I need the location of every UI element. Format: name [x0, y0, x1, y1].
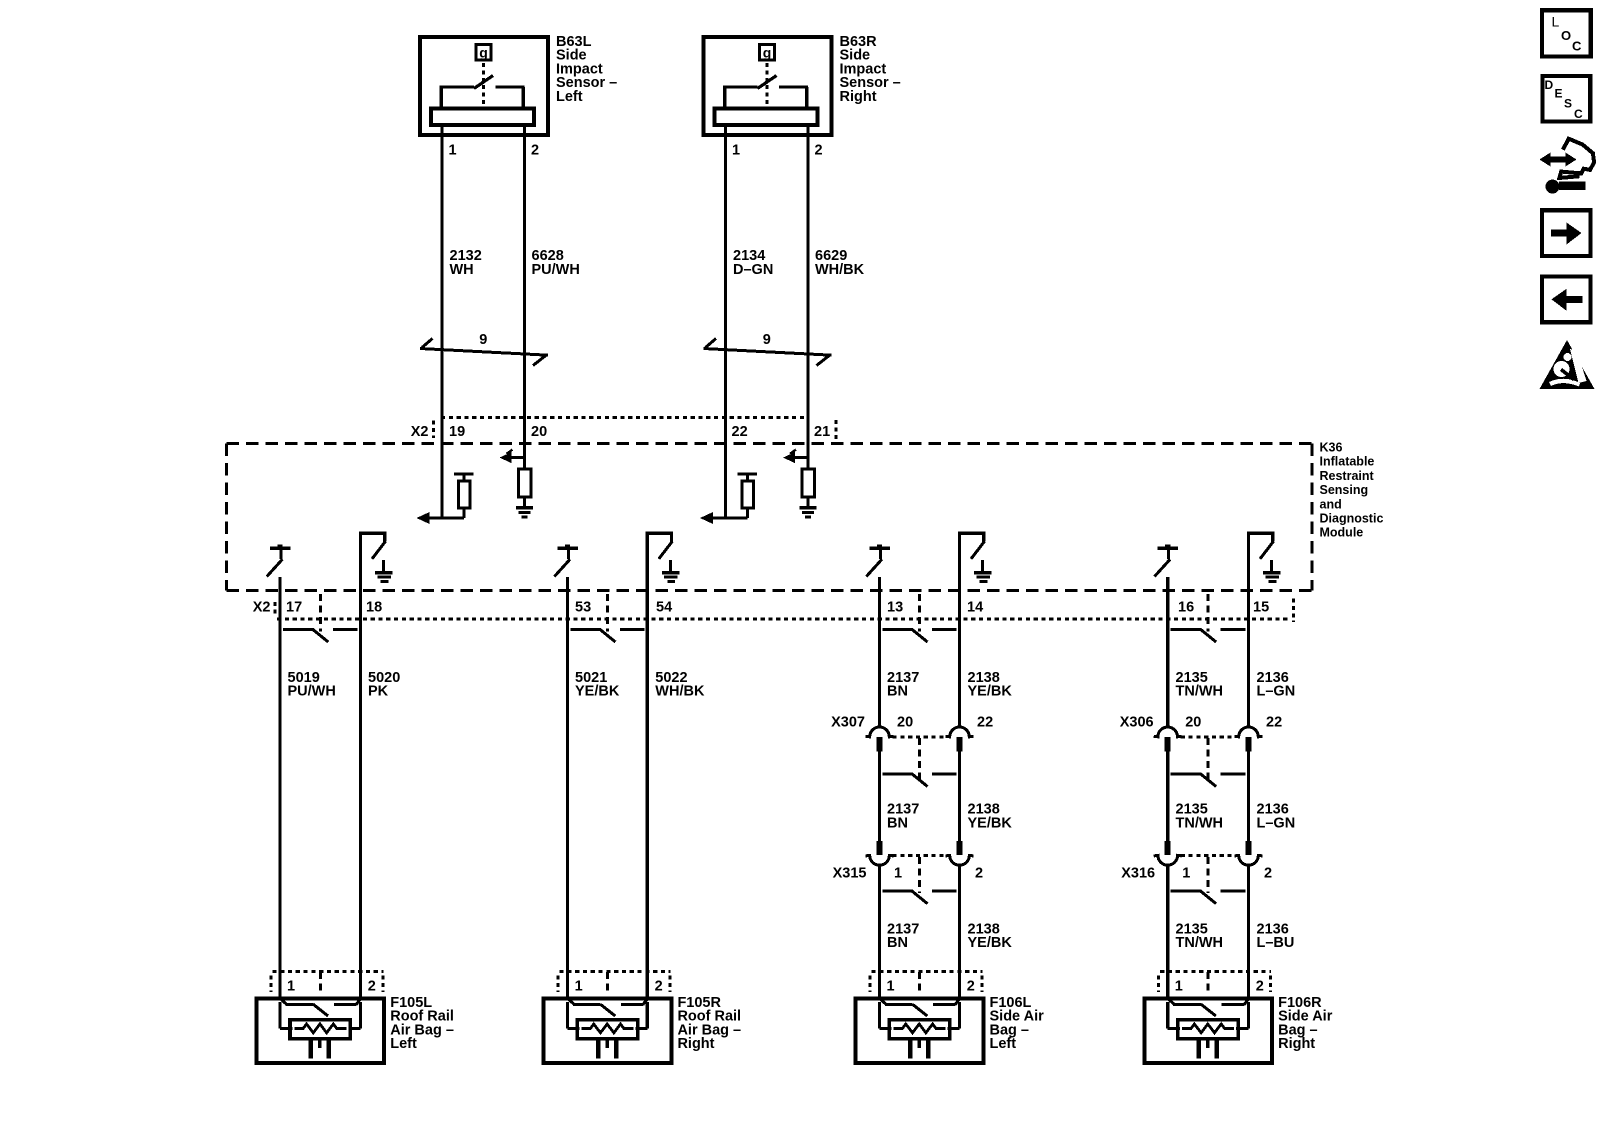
high-side driver switch (pin wire x=567.6) [554, 544, 578, 576]
F105L connector right end mark [381, 976, 384, 993]
svg-text:2: 2 [368, 978, 376, 994]
ground (internal) [516, 508, 533, 517]
air bag F106R connector dotted line [1160, 970, 1271, 973]
svg-text:20: 20 [897, 714, 913, 730]
svg-text:X2: X2 [411, 424, 429, 440]
bias resistor (T-bar supply) [738, 474, 758, 518]
connector X2 (top) dotted line [441, 416, 807, 419]
arrow (signal to sensing circuit) [417, 512, 465, 524]
F106L shorting clip [880, 999, 960, 1017]
deployment loop wire (high side, to inline connector) [878, 577, 881, 728]
svg-text:Right: Right [840, 89, 877, 105]
svg-text:WH/BK: WH/BK [655, 684, 705, 700]
X315 female terminal cup [946, 855, 974, 865]
low-side wire (to inline connector) [958, 532, 961, 728]
wire between connectors (right) [1247, 752, 1250, 843]
wire 2132 WH (pin 1) [440, 125, 443, 518]
X316 male terminal pin [1165, 841, 1171, 855]
svg-text:2: 2 [655, 978, 663, 994]
svg-text:Right: Right [1278, 1036, 1315, 1052]
svg-text:53: 53 [575, 600, 591, 616]
svg-text:TN/WH: TN/WH [1176, 816, 1224, 832]
X307 dashed center line [918, 738, 921, 781]
X306 dashed center line [1207, 738, 1210, 781]
svg-text:9: 9 [479, 332, 487, 348]
svg-text:21: 21 [814, 424, 830, 440]
B63R sensor element bar [715, 108, 818, 125]
X316 dashed center line [1207, 857, 1210, 893]
F105L shorting clip [280, 999, 361, 1017]
K36 module dashed border bottom [227, 589, 1313, 592]
svg-text:S: S [1564, 97, 1572, 111]
X315 dashed center line [918, 857, 921, 893]
X307 female terminal arch [866, 727, 894, 737]
low-side driver switch (pin wire x=360.5) [359, 533, 386, 559]
connector X2 (bottom) right end mark [1292, 599, 1295, 623]
F105L connector dashed center line [319, 972, 322, 995]
dashed pair separator [319, 594, 322, 632]
F106L connector left end mark [869, 976, 872, 993]
air bag module F106L box [856, 999, 984, 1064]
F105R squib resistor [577, 1020, 637, 1039]
shorting clip [883, 629, 957, 642]
shorting clip [883, 891, 957, 904]
low-side driver switch (pin wire x=1248.5) [1247, 533, 1274, 559]
svg-text:BN: BN [887, 935, 908, 951]
svg-text:54: 54 [656, 600, 672, 616]
X316 dashed mating line [1181, 854, 1236, 857]
low-side wire pin 54 [646, 532, 649, 1000]
svg-text:O: O [1561, 28, 1571, 43]
F106L igniter [910, 1039, 928, 1058]
wire between connectors (left) [1166, 752, 1169, 843]
svg-text:TN/WH: TN/WH [1176, 684, 1224, 700]
svg-text:YE/BK: YE/BK [968, 684, 1013, 700]
svg-text:2: 2 [531, 143, 539, 159]
svg-text:WH/BK: WH/BK [815, 262, 865, 278]
svg-text:1: 1 [575, 978, 583, 994]
B63R internal dashed link [766, 63, 769, 104]
X315 dashed mating line [893, 854, 947, 857]
high-side driver switch (pin wire x=280) [267, 544, 291, 576]
svg-text:20: 20 [531, 424, 547, 440]
svg-text:BN: BN [887, 684, 908, 700]
svg-text:BN: BN [887, 816, 908, 832]
X307 dashed mating line [893, 735, 947, 738]
svg-text:1: 1 [887, 978, 895, 994]
svg-text:15: 15 [1253, 600, 1269, 616]
svg-text:D: D [1545, 78, 1554, 92]
ground (chassis, driver low side) [974, 560, 992, 582]
low-side wire pin 18 [359, 532, 362, 1000]
wire resistor-to-ground [807, 497, 810, 507]
svg-text:2: 2 [967, 978, 975, 994]
svg-text:WH: WH [450, 262, 474, 278]
X306 male terminal pin [1165, 737, 1171, 752]
svg-text:14: 14 [967, 600, 983, 616]
connector X2 (top) right end mark [835, 420, 838, 439]
svg-text:Inflatable: Inflatable [1320, 455, 1375, 469]
arrow (signal to sensing circuit) [700, 512, 748, 524]
F105L squib resistor [290, 1020, 350, 1039]
F105R connector right end mark [668, 976, 671, 993]
svg-text:TN/WH: TN/WH [1176, 935, 1224, 951]
F105L squib feed wires [280, 1002, 361, 1028]
wire 2134 D–GN (pin 1) [724, 125, 727, 518]
svg-text:Left: Left [556, 89, 583, 105]
connector X2 (bottom) dotted line [277, 618, 1290, 621]
wire 6628 PU/WH (B63L pin 2, upper) [523, 125, 526, 469]
svg-text:C: C [1574, 107, 1583, 121]
svg-text:PK: PK [368, 684, 389, 700]
F106R connector right end mark [1269, 976, 1272, 993]
dashed pair separator [606, 594, 609, 632]
K36 module dashed border top [227, 442, 1313, 445]
svg-text:2: 2 [815, 143, 823, 159]
X315 male terminal pin [877, 841, 883, 855]
X306 dashed mating line [1181, 735, 1236, 738]
svg-text:Left: Left [390, 1036, 417, 1052]
connector X2 (bottom) left end mark [273, 602, 276, 617]
deployment loop wire (high side, to inline connector) [1166, 577, 1169, 728]
X316 female terminal cup [1235, 855, 1263, 865]
svg-text:22: 22 [1266, 714, 1282, 730]
svg-text:2: 2 [975, 865, 983, 881]
shorting clip [1171, 891, 1246, 904]
svg-text:L: L [1552, 14, 1560, 30]
svg-text:13: 13 [887, 600, 903, 616]
shorting clip [571, 629, 645, 642]
svg-text:PU/WH: PU/WH [288, 684, 336, 700]
icon DESC box [1543, 76, 1591, 122]
svg-text:X306: X306 [1120, 714, 1154, 730]
ground (internal) [800, 508, 817, 517]
B63R internal switch [723, 76, 808, 108]
ground (chassis, driver low side) [662, 560, 680, 582]
svg-text:X315: X315 [833, 865, 867, 881]
F106R igniter [1199, 1039, 1217, 1058]
svg-text:Module: Module [1320, 526, 1364, 540]
air bag module F106R box [1144, 999, 1272, 1064]
svg-text:Restraint: Restraint [1320, 469, 1375, 483]
wire below connector (right) [958, 865, 961, 1000]
svg-text:g: g [763, 45, 772, 61]
K36 module dashed border right [1310, 444, 1313, 591]
F106R squib feed wires [1168, 1002, 1249, 1028]
wire below connector (left) [1166, 865, 1169, 1000]
svg-text:9: 9 [763, 332, 771, 348]
svg-text:L–GN: L–GN [1257, 684, 1296, 700]
svg-text:YE/BK: YE/BK [575, 684, 620, 700]
arrow (signal return to diagnostics) [783, 450, 808, 464]
B63L sensor element bar [431, 108, 534, 125]
svg-text:1: 1 [1175, 978, 1183, 994]
X307 male terminal pin [957, 737, 963, 752]
twisted-pair symbol, circuit 9 [704, 339, 832, 366]
high-side driver switch (pin wire x=1167.7) [1155, 544, 1179, 576]
ground (chassis, driver low side) [1263, 560, 1281, 582]
F106L connector right end mark [981, 976, 984, 993]
svg-text:X316: X316 [1121, 865, 1155, 881]
deployment loop wire (high side) [278, 577, 281, 1000]
svg-text:1: 1 [287, 978, 295, 994]
dashed pair separator [1207, 594, 1210, 632]
F106L connector dashed center line [918, 972, 921, 995]
shorting clip [883, 774, 957, 787]
svg-text:D–GN: D–GN [733, 262, 773, 278]
bias resistor (T-bar supply) [454, 474, 474, 518]
X315 male terminal pin [957, 841, 963, 855]
F106L squib resistor [889, 1020, 949, 1039]
svg-text:1: 1 [1182, 865, 1190, 881]
dashed pair separator [918, 594, 921, 632]
B63R g-cell symbol [760, 45, 775, 61]
svg-text:Right: Right [677, 1036, 714, 1052]
wire resistor-to-ground [523, 497, 526, 507]
icon LOC box [1542, 10, 1591, 56]
F105R squib feed wires [568, 1002, 648, 1028]
F105R connector left end mark [556, 976, 559, 993]
side impact sensor B63R [704, 37, 832, 135]
svg-text:Left: Left [990, 1036, 1017, 1052]
svg-text:L–BU: L–BU [1257, 935, 1295, 951]
ground (chassis, driver low side) [375, 560, 393, 582]
F105R connector dashed center line [606, 972, 609, 995]
deployment loop wire (high side) [566, 577, 569, 1000]
X316 male terminal pin [1246, 841, 1252, 855]
B63L g-cell symbol [476, 45, 491, 61]
svg-text:16: 16 [1178, 600, 1194, 616]
F105L igniter [311, 1039, 329, 1058]
internal resistor to ground [802, 469, 815, 497]
svg-text:X307: X307 [831, 714, 865, 730]
wire between connectors (left) [878, 752, 881, 843]
K36 module dashed border left [225, 444, 228, 591]
svg-text:2: 2 [1264, 865, 1272, 881]
air bag F105L connector dotted line [272, 970, 383, 973]
wire between connectors (right) [958, 752, 961, 843]
svg-text:and: and [1320, 497, 1342, 511]
F106R connector left end mark [1157, 976, 1160, 993]
icon tools / double arrow [1540, 139, 1595, 194]
X306 female terminal arch [1235, 727, 1263, 737]
air bag module F105R box [544, 999, 672, 1064]
icon airbag warning triangle [1540, 340, 1595, 389]
svg-text:Diagnostic: Diagnostic [1320, 512, 1384, 526]
shorting clip [1171, 629, 1246, 642]
svg-text:Sensing: Sensing [1320, 483, 1369, 497]
svg-text:2: 2 [1256, 978, 1264, 994]
F105R shorting clip [568, 999, 648, 1017]
F105L connector left end mark [269, 976, 272, 993]
icon arrow right box [1542, 210, 1591, 256]
air bag F106L connector dotted line [872, 970, 983, 973]
svg-text:L–GN: L–GN [1257, 816, 1296, 832]
F106L squib feed wires [880, 1002, 960, 1028]
wire below connector (left) [878, 865, 881, 1000]
svg-text:1: 1 [732, 143, 740, 159]
B63L internal dashed link [482, 63, 485, 104]
F106R connector dashed center line [1207, 972, 1210, 995]
F106R shorting clip [1168, 999, 1249, 1017]
air bag module F105L box [256, 999, 384, 1064]
svg-text:C: C [1572, 39, 1582, 54]
svg-text:E: E [1555, 87, 1563, 101]
arrow (signal return to diagnostics) [500, 450, 525, 464]
twisted-pair symbol, circuit 9 [420, 339, 548, 366]
svg-text:PU/WH: PU/WH [532, 262, 580, 278]
svg-text:X2: X2 [253, 600, 271, 616]
svg-text:g: g [479, 45, 488, 61]
svg-text:1: 1 [894, 865, 902, 881]
svg-text:YE/BK: YE/BK [968, 935, 1013, 951]
svg-text:22: 22 [977, 714, 993, 730]
svg-text:17: 17 [286, 600, 302, 616]
svg-text:22: 22 [732, 424, 748, 440]
air bag F105R connector dotted line [559, 970, 670, 973]
shorting clip [283, 629, 358, 642]
F106R squib resistor [1178, 1020, 1238, 1039]
svg-text:20: 20 [1185, 714, 1201, 730]
X307 female terminal arch [946, 727, 974, 737]
svg-text:YE/BK: YE/BK [968, 816, 1013, 832]
X306 female terminal arch [1154, 727, 1182, 737]
svg-text:19: 19 [449, 424, 465, 440]
side impact sensor B63L [420, 37, 548, 135]
F105R igniter [598, 1039, 616, 1058]
X306 male terminal pin [1246, 737, 1252, 752]
svg-text:K36: K36 [1320, 441, 1343, 455]
svg-text:1: 1 [449, 143, 457, 159]
connector X2 (top) left end mark [432, 421, 435, 439]
shorting clip [1171, 774, 1246, 787]
B63L internal switch [440, 76, 525, 108]
low-side driver switch (pin wire x=959.5) [958, 533, 985, 559]
svg-text:18: 18 [366, 600, 382, 616]
X315 female terminal cup [866, 855, 894, 865]
X307 male terminal pin [877, 737, 883, 752]
wire 6629 WH/BK (B63R pin 2, upper) [806, 125, 809, 469]
low-side wire (to inline connector) [1247, 532, 1250, 728]
wire below connector (right) [1247, 865, 1250, 1000]
low-side driver switch (pin wire x=647.3) [646, 533, 673, 559]
high-side driver switch (pin wire x=879.5) [866, 544, 890, 576]
X316 female terminal cup [1154, 855, 1182, 865]
internal resistor to ground [519, 469, 532, 497]
icon arrow left box [1542, 277, 1591, 323]
